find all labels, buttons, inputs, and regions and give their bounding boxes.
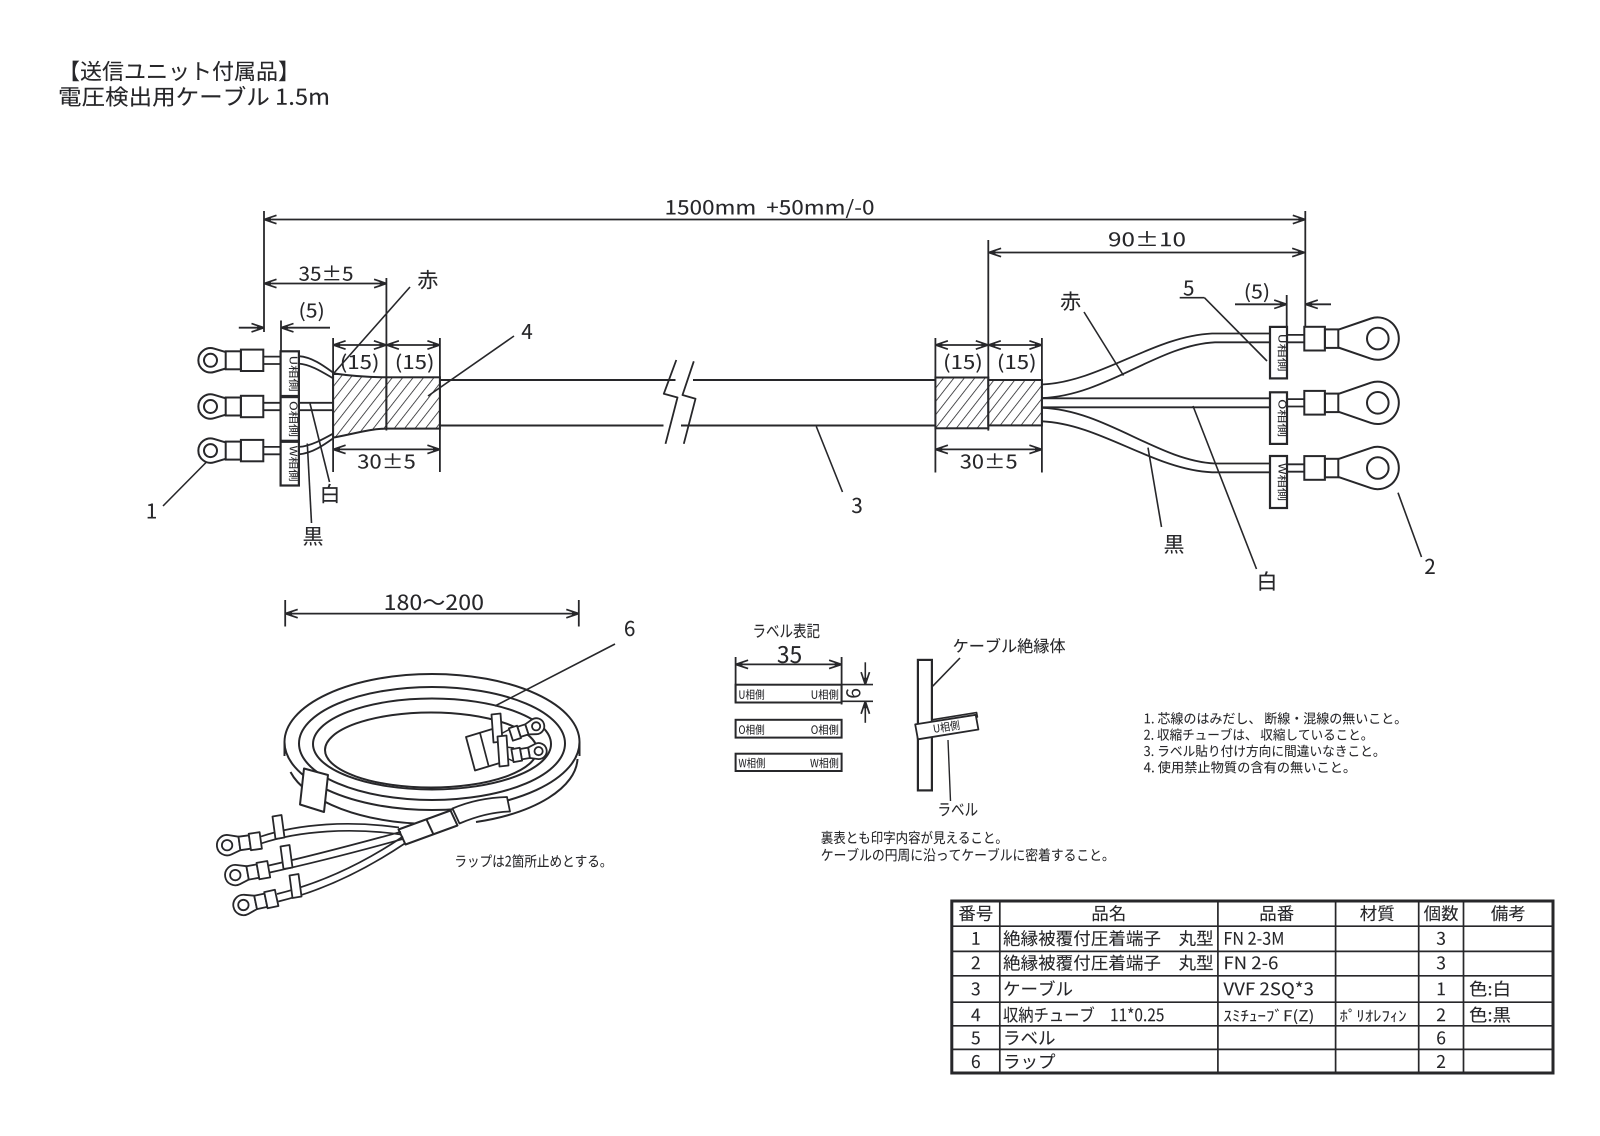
title line2 [60, 86, 328, 107]
tail ring terminal 1 [217, 835, 241, 855]
leader + label 黒 (right) [1148, 448, 1162, 527]
label sample U相側 [736, 685, 842, 703]
label O相側 (right) [1270, 392, 1287, 444]
table row 6 [972, 1055, 980, 1068]
leader + label 赤 (left) [334, 287, 410, 373]
tail wire 2 [269, 832, 401, 866]
label W相側 (right) [1270, 456, 1287, 508]
dimension (5) left [239, 327, 264, 329]
tail wire 1 [261, 824, 399, 837]
extension/tube edge left [332, 338, 334, 472]
table row 1 [972, 932, 979, 945]
coil dimension 180~200 [285, 613, 579, 615]
label U相側 (left) [281, 351, 299, 396]
table row 4 [971, 1008, 980, 1021]
dimension 30±5 left [333, 448, 440, 450]
cable break symbol [664, 360, 678, 444]
note ケーブルの円周に沿って... [822, 848, 1107, 862]
black wire fan right [1042, 408, 1270, 464]
extension line label box left [280, 321, 282, 352]
tail label flag 1 [273, 815, 285, 839]
tail ring terminal 2 [225, 865, 249, 885]
extension/tube edge right-right [1041, 338, 1043, 473]
white wire right [1042, 397, 1270, 399]
leader + balloon 2 [1398, 493, 1422, 557]
extension/tube divider right [987, 240, 989, 431]
label ケーブル絶縁体 + leader [954, 638, 1066, 654]
wrapped label flag [915, 715, 978, 740]
wrap band 1 on coil [300, 769, 328, 813]
table row 3 [971, 982, 979, 995]
extension line / tube divider left [385, 278, 387, 431]
leader + balloon 5 (underlined) [1180, 297, 1205, 299]
label sample O相側 [736, 720, 842, 738]
dimension 1500mm +50mm/-0 [264, 219, 1305, 221]
shrink tube right section 2 (hatched) [988, 380, 1042, 425]
ring terminal 1 (left, W-phase) [198, 438, 225, 462]
cable outline bottom [440, 425, 664, 427]
shrink tube on tail [399, 811, 458, 845]
wrap band 2 (inner, pointed by 6) [492, 714, 503, 743]
ring terminal 2 (right, O-phase) [1287, 398, 1304, 400]
coil right edge depth [579, 742, 581, 756]
white wire left [299, 402, 333, 404]
leader + balloon 3 [816, 427, 842, 493]
tail label flag 3 [290, 874, 302, 898]
extension/tube edge right-left [934, 338, 936, 473]
dimension (5) right [1235, 303, 1287, 305]
table row 2 [972, 956, 980, 969]
dimension 90±10 [989, 252, 1305, 254]
label spec heading ラベル表記 [754, 623, 819, 638]
extension line right end [1304, 211, 1306, 327]
dimension 6 (label height) [842, 684, 873, 686]
note ラップは2箇所止めとする。 [456, 854, 604, 867]
leader + label 白 (right) [1193, 406, 1257, 569]
ring terminal 1 (left, U-phase) [198, 348, 225, 372]
coil left edge depth [284, 742, 286, 756]
dimension 35±5 [264, 283, 387, 285]
label ラベル + leader [948, 740, 951, 801]
dimension (15)(15) right [935, 344, 1042, 346]
label W相側 (left) [281, 442, 299, 486]
leader + balloon 4 [428, 336, 514, 396]
shrink tube left section 2 (hatched) [386, 377, 440, 428]
red wire fan left [299, 356, 333, 372]
extension line left end [263, 211, 265, 332]
inner wires [497, 729, 511, 737]
cable tail band [453, 797, 511, 824]
tail wire 3 [277, 837, 403, 895]
numbered notes [1145, 712, 1399, 725]
leader + label 白 (left) [310, 404, 330, 483]
label U相側 (right) [1270, 327, 1287, 379]
red wire fan right [1042, 334, 1270, 385]
inner mini terminal 2 [528, 743, 547, 759]
dimension 35 (label) [736, 663, 842, 665]
shrink tube right section 1 (hatched) [935, 378, 988, 429]
coil ellipse 3 [313, 699, 551, 790]
inner mini terminal 1 [525, 718, 544, 734]
shrink tube left section 1 (hatched) [333, 373, 386, 437]
extension line right label box [1286, 295, 1288, 327]
ring terminal 1 (left, O-phase) [198, 394, 225, 418]
cable insulator bar [918, 660, 932, 791]
tail ring terminal 3 [233, 895, 257, 915]
ring terminal 2 (right, W-phase) [1287, 463, 1304, 465]
label sample W相側 [736, 754, 842, 771]
inner flag 2 [498, 736, 509, 767]
coil outer ellipse [285, 674, 580, 810]
extension/tube edge right [439, 338, 441, 472]
cable outline top [440, 379, 676, 381]
label O相側 (left) [281, 397, 299, 441]
black wire fan left [299, 432, 336, 447]
leader + label 黒 (left) [307, 444, 311, 524]
label flag fold edge [932, 713, 978, 724]
parts table [952, 901, 1553, 1073]
leader + balloon 1 [163, 463, 206, 507]
tail label flag 2 [281, 845, 293, 869]
title line1 [73, 61, 286, 82]
note 裏表とも印字内容が見えること。 [821, 831, 1000, 845]
dimension 30±5 right [935, 448, 1042, 450]
coil bottom depth edge [291, 759, 578, 824]
leader + label 赤 (right) [1084, 312, 1124, 376]
coil ellipse 2 [299, 687, 565, 800]
ring terminal 2 (right, U-phase) [1287, 334, 1304, 336]
table row 5 [971, 1031, 979, 1044]
inner bundle tube [466, 729, 503, 771]
table header row [959, 905, 993, 921]
tube divider [427, 820, 434, 835]
leader + balloon 6 [495, 644, 615, 706]
coil inner hole ellipse [325, 713, 537, 788]
dimension (15)(15) left [333, 344, 440, 346]
